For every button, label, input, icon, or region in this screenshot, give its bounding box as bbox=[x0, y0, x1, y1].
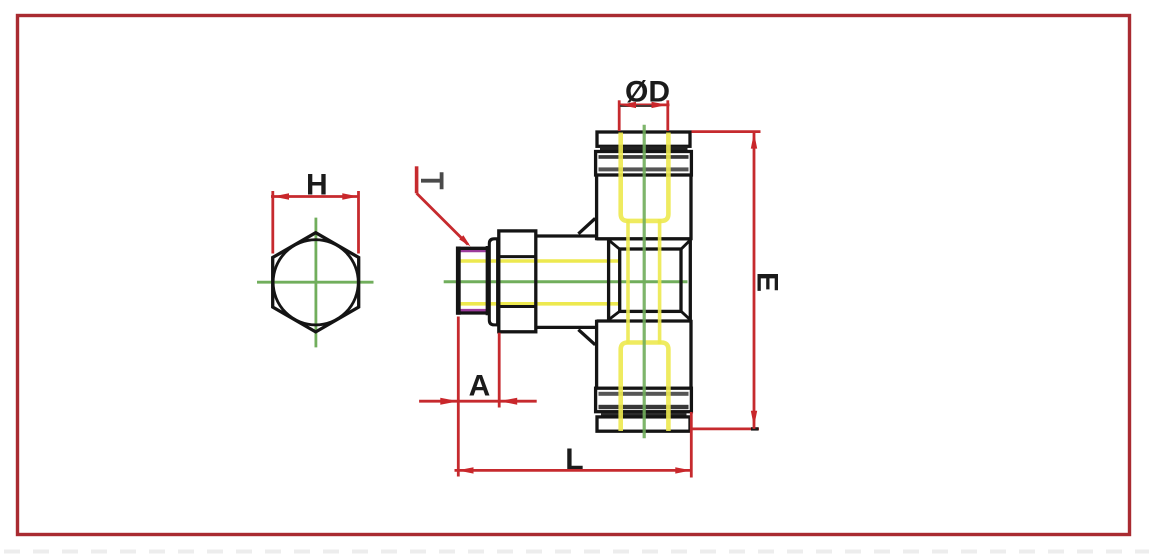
fillet curve top bbox=[578, 218, 595, 233]
male thread right edge bbox=[486, 246, 489, 315]
dimension H extension line left bbox=[271, 191, 274, 254]
dimension E extension bottom dark tick bbox=[751, 427, 759, 430]
top cap body bbox=[596, 152, 692, 176]
yellow bore vertical left bbox=[626, 219, 630, 344]
horizontal yellow bore line upper bbox=[460, 259, 621, 263]
tube bottom rim line bbox=[597, 319, 692, 322]
bottom cap collet band bbox=[601, 413, 687, 417]
dimension E extension line top bbox=[692, 130, 761, 133]
hex end view horizontal centerline bbox=[257, 281, 374, 284]
hex end view vertical centerline bbox=[314, 218, 317, 348]
washer right edge bbox=[496, 238, 499, 327]
top cap outer ring bbox=[597, 132, 690, 146]
top tube yellow insert U bbox=[621, 133, 669, 221]
middle boss chamfer diagonals bbox=[609, 240, 691, 320]
dimension OD extension line left bbox=[618, 100, 621, 131]
svg-text:H: H bbox=[306, 168, 328, 201]
thread crest magenta line top bbox=[459, 249, 487, 252]
dimension E line bbox=[753, 133, 756, 429]
vertical green centerline bbox=[643, 125, 646, 439]
main horizontal green centerline bbox=[444, 280, 688, 283]
middle boss right edge bbox=[689, 239, 692, 321]
inscribed circle bbox=[273, 240, 358, 325]
body cone top edge bbox=[536, 234, 598, 237]
hex nut side view lower edge line bbox=[499, 305, 536, 308]
dimension L line bbox=[455, 469, 692, 472]
dimension OD arrowheads bbox=[620, 102, 668, 108]
svg-text:L: L bbox=[565, 443, 583, 476]
leader arrowhead bbox=[459, 235, 470, 246]
bottom tube yellow insert U bbox=[621, 343, 669, 432]
bottom cap outer ring bbox=[597, 417, 690, 431]
dimension OD line bbox=[619, 104, 670, 107]
dimension OD dark tick bbox=[620, 105, 657, 107]
bottom cap grip band 1 bbox=[599, 405, 689, 409]
tube top rim line bbox=[597, 237, 692, 240]
dimension H arrowheads bbox=[273, 193, 359, 200]
hex nut side view bbox=[499, 231, 536, 332]
leader line bbox=[417, 193, 468, 244]
middle boss inner rect bbox=[620, 249, 681, 311]
dimension E extension line bottom bbox=[691, 427, 759, 430]
middle boss left edge bbox=[607, 239, 610, 321]
body cone bottom edge bbox=[536, 326, 598, 329]
dimension OD extension line right bbox=[666, 100, 669, 131]
tee tube upper right edge bbox=[689, 173, 692, 240]
svg-text:E: E bbox=[751, 272, 784, 292]
dimension L extension line right bbox=[690, 412, 693, 478]
tee tube upper left edge bbox=[595, 173, 598, 240]
leader T label bbox=[421, 172, 442, 189]
male thread outline bbox=[457, 248, 489, 313]
washer band bbox=[489, 239, 497, 325]
top cap collet band bbox=[600, 146, 688, 151]
leader red tick bbox=[415, 166, 419, 193]
hex nut end view hexagon bbox=[273, 233, 359, 332]
dimension A extension line right bbox=[498, 333, 501, 408]
top cap grip band 1 bbox=[599, 155, 689, 159]
dimension A arrowheads bbox=[440, 398, 517, 405]
tee tube lower right edge bbox=[689, 320, 692, 393]
bottom cap body bbox=[596, 388, 692, 412]
dimension A extension line left shared with L bbox=[457, 317, 460, 477]
dimension E arrowheads bbox=[751, 133, 757, 427]
male thread end face bbox=[456, 247, 461, 315]
yellow bore vertical right bbox=[658, 219, 662, 344]
thread crest magenta line bottom bbox=[459, 309, 487, 312]
dimension L arrowheads bbox=[458, 467, 692, 473]
fillet curve bottom bbox=[578, 330, 595, 345]
svg-text:ØD: ØD bbox=[625, 76, 670, 109]
top cap grip band 2 bbox=[599, 167, 689, 171]
dimension H line bbox=[271, 195, 360, 198]
dimension A line bbox=[419, 400, 537, 403]
dimension H extension line right bbox=[357, 191, 360, 254]
hex nut side view upper edge line bbox=[499, 255, 536, 258]
svg-text:A: A bbox=[469, 370, 491, 403]
bottom cap grip band 2 bbox=[599, 392, 689, 396]
horizontal yellow bore line lower bbox=[460, 302, 621, 306]
bottom edge artifact dashes bbox=[4, 550, 1149, 554]
tee tube lower left edge bbox=[595, 320, 598, 393]
